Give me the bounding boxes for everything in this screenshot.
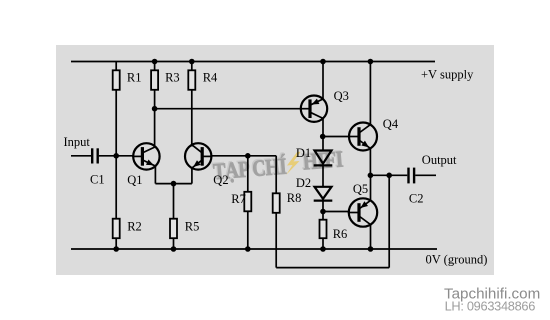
wire: D2 to bias node bbox=[322, 201, 324, 212]
transistor Q4 (NPN) bbox=[348, 117, 399, 150]
wire: Q5 collector to ground bbox=[370, 225, 372, 249]
node: R5 ground bbox=[171, 246, 177, 252]
node: Q2 base / R7 / R8 bbox=[245, 153, 251, 159]
wire: emitter tie bar bbox=[155, 183, 192, 185]
resistor R2 bbox=[113, 219, 142, 239]
wire: R1/R2 column bbox=[115, 62, 117, 250]
transistor Q3 (PNP) bbox=[300, 89, 349, 122]
wire: R4 column / Q2 collector bbox=[191, 62, 193, 147]
node: Q4 collector rail junction bbox=[368, 59, 374, 65]
wire: Q1 emitter down bbox=[154, 166, 156, 184]
svg-text:Q4: Q4 bbox=[383, 117, 399, 131]
node: R7 ground bbox=[245, 246, 251, 252]
resistor R1 bbox=[113, 70, 142, 90]
node: feedback output junction bbox=[386, 173, 392, 179]
resistor R3 bbox=[151, 70, 180, 90]
+V supply rail bbox=[71, 61, 435, 63]
resistor R5 bbox=[170, 219, 199, 239]
resistor R4 bbox=[188, 70, 218, 90]
input wire bbox=[71, 155, 91, 157]
wire: feedback bottom run bbox=[276, 267, 389, 269]
svg-text:Output: Output bbox=[422, 153, 457, 167]
svg-text:R2: R2 bbox=[127, 219, 142, 233]
svg-text:C1: C1 bbox=[90, 173, 105, 187]
svg-text:Q1: Q1 bbox=[127, 173, 142, 187]
node: Q3 emitter rail junction bbox=[320, 59, 326, 65]
svg-text:R6: R6 bbox=[333, 227, 348, 241]
svg-text:R8: R8 bbox=[287, 191, 302, 205]
svg-text:LH: 0963348866: LH: 0963348866 bbox=[445, 298, 536, 313]
wire: node to R7 bbox=[247, 156, 249, 249]
node: R2 ground bbox=[113, 246, 119, 252]
node: input / R1 / R2 / Q1 base bbox=[113, 153, 119, 159]
wire: D1 to D2 bbox=[322, 165, 324, 186]
svg-text:C2: C2 bbox=[409, 191, 424, 205]
wire: Q2 emitter down bbox=[191, 168, 193, 184]
node: tail junction bbox=[171, 181, 177, 187]
site watermark text bbox=[444, 285, 540, 313]
wire: Q2 base to feedback node bbox=[211, 155, 276, 157]
svg-text:R7: R7 bbox=[231, 192, 246, 206]
wire: Q5 emitter to output node bbox=[370, 175, 372, 200]
capacitor C2 bbox=[409, 168, 424, 206]
node: R6 ground bbox=[320, 246, 326, 252]
wire: node to Q5 base bbox=[323, 211, 349, 213]
svg-text:Q5: Q5 bbox=[353, 182, 368, 196]
node: Q5 collector ground junction bbox=[368, 246, 374, 252]
node: R4 top junction bbox=[189, 59, 195, 65]
wire: Q3 collector down bbox=[322, 118, 324, 136]
transistor Q2 (mirrored) bbox=[185, 143, 229, 187]
svg-text:R1: R1 bbox=[127, 70, 142, 84]
svg-text:Q2: Q2 bbox=[213, 173, 228, 187]
svg-text:R4: R4 bbox=[203, 70, 218, 84]
wire: node to Q4 base bbox=[323, 136, 349, 138]
node: Q4/Q5 output junction bbox=[368, 173, 374, 179]
node: R3 top junction bbox=[152, 59, 158, 65]
svg-text:Input: Input bbox=[64, 135, 91, 149]
svg-text:Q3: Q3 bbox=[334, 89, 349, 103]
resistor R7 bbox=[231, 192, 251, 212]
wire: tail to R5 bbox=[173, 184, 175, 249]
wire: C1 to Q1 base bbox=[99, 155, 134, 157]
schematic gray panel bbox=[56, 45, 494, 275]
diode D2 bbox=[296, 176, 332, 201]
svg-text:D1: D1 bbox=[296, 146, 311, 160]
wire: C2 to output terminal bbox=[415, 174, 436, 176]
svg-text:R3: R3 bbox=[165, 70, 180, 84]
diode D1 bbox=[296, 146, 332, 166]
wire: D1 anode lead bbox=[322, 137, 324, 151]
svg-text:D2: D2 bbox=[296, 176, 311, 190]
wire: feedback riser to output bbox=[388, 175, 390, 267]
watermark lightning bolt bbox=[286, 152, 301, 176]
output wire bbox=[370, 174, 407, 176]
transistor Q5 (PNP) bbox=[348, 182, 377, 227]
wire: R3 column / Q1 collector bbox=[154, 62, 156, 148]
svg-text:+V supply: +V supply bbox=[421, 67, 474, 81]
wire: R6 column bbox=[322, 212, 324, 250]
wire: R8 column down through ground rail bbox=[275, 156, 277, 268]
node: Q3 collector / D1 / Q4 base bbox=[320, 134, 326, 140]
transistor Q1 bbox=[127, 143, 159, 187]
resistor R6 bbox=[320, 220, 348, 242]
wire: Q4 collector to +V bbox=[369, 62, 371, 125]
capacitor C1 bbox=[90, 148, 105, 186]
wire: Q4 emitter to output node bbox=[369, 148, 371, 175]
wire: Q3 emitter to +V bbox=[322, 62, 324, 100]
wire: bias line R3 node to Q3 base bbox=[155, 108, 302, 110]
svg-text:0V (ground): 0V (ground) bbox=[426, 252, 488, 266]
svg-text:R5: R5 bbox=[185, 219, 200, 233]
watermark TAP CHI HIFI bbox=[211, 145, 345, 184]
node: D2 / R6 / Q5 base bbox=[320, 209, 326, 215]
0V ground rail bbox=[71, 248, 437, 250]
resistor R8 bbox=[273, 191, 302, 213]
